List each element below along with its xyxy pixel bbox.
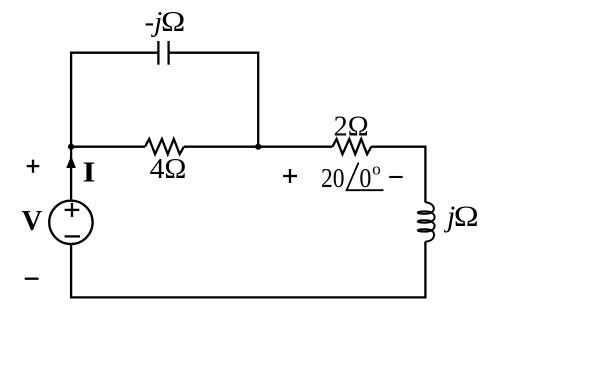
resistor R1 4Ω zigzag — [145, 139, 184, 154]
wire: capacitor to top-right corner down to node B — [169, 53, 259, 147]
terminal + (top left) — [27, 160, 40, 173]
svg-text:jΩ: jΩ — [443, 201, 479, 233]
svg-text:2Ω: 2Ω — [334, 112, 369, 143]
svg-text:V: V — [22, 206, 43, 237]
current arrow I head — [66, 156, 76, 168]
wire: node A to resistor 4Ω — [71, 146, 145, 148]
capacitor C1 (-jΩ) plates — [158, 41, 168, 65]
phasor − sign — [389, 176, 403, 178]
svg-text:o: o — [372, 160, 381, 179]
phasor + sign — [283, 169, 297, 183]
wire: left vertical + top-left horizontal to capacitor — [71, 53, 158, 147]
source + sign — [65, 203, 80, 217]
wire: 4Ω to 2Ω — [184, 146, 333, 148]
voltage source V circle — [49, 201, 92, 244]
svg-text:-jΩ: -jΩ — [145, 6, 186, 38]
resistor R2 2Ω zigzag — [332, 139, 371, 154]
svg-text:0: 0 — [359, 163, 371, 193]
phasor angle symbol — [347, 163, 384, 191]
svg-text:20: 20 — [321, 163, 345, 193]
svg-text:I: I — [83, 158, 96, 189]
node A (left junction dot) — [68, 144, 74, 150]
terminal − (bottom left) — [25, 278, 39, 280]
wire: source bottom to bottom rail and right side up to coil — [71, 242, 425, 298]
source − sign — [65, 235, 80, 237]
wire: 2Ω to right corner down to inductor — [371, 147, 425, 203]
wire: node A down to source (current arrow shaft) — [70, 147, 72, 200]
svg-text:4Ω: 4Ω — [150, 154, 187, 185]
inductor L1 coil — [418, 202, 435, 241]
node B (right junction dot) — [255, 144, 261, 150]
